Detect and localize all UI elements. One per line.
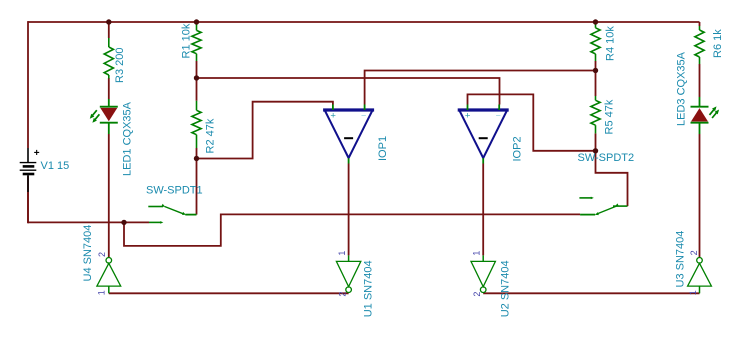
svg-text:SW-SPDT1: SW-SPDT1: [146, 185, 203, 197]
svg-text:U2 SN7404: U2 SN7404: [500, 260, 512, 317]
svg-text:R1 10k: R1 10k: [181, 23, 193, 58]
svg-text:2: 2: [689, 250, 699, 255]
svg-text:SW-SPDT2: SW-SPDT2: [578, 152, 635, 164]
svg-text:U3 SN7404: U3 SN7404: [675, 231, 687, 288]
svg-text:1: 1: [688, 290, 698, 295]
svg-text:R3 200: R3 200: [114, 48, 126, 83]
svg-text:2: 2: [97, 252, 107, 257]
svg-text:U1 SN7404: U1 SN7404: [363, 260, 375, 317]
svg-text:V1 15: V1 15: [41, 160, 70, 172]
svg-text:R2 47k: R2 47k: [205, 118, 217, 153]
svg-text:R4 10k: R4 10k: [605, 26, 617, 61]
svg-text:2: 2: [472, 292, 482, 297]
svg-text:2: 2: [338, 292, 348, 297]
svg-text:IOP2: IOP2: [512, 136, 524, 161]
svg-text:1: 1: [472, 251, 482, 256]
svg-text:IOP1: IOP1: [377, 136, 389, 161]
svg-text:LED1 CQX35A: LED1 CQX35A: [122, 101, 134, 176]
svg-text:1: 1: [97, 290, 107, 295]
svg-text:LED3 CQX35A: LED3 CQX35A: [676, 51, 688, 126]
svg-text:−: −: [496, 110, 501, 120]
svg-text:+: +: [330, 111, 336, 122]
svg-text:+: +: [465, 111, 471, 122]
svg-text:−: −: [361, 110, 366, 120]
svg-text:U4 SN7404: U4 SN7404: [82, 225, 94, 282]
svg-text:R5 47k: R5 47k: [604, 99, 616, 134]
svg-text:R6 1k: R6 1k: [712, 29, 724, 58]
svg-text:+: +: [34, 148, 40, 159]
svg-text:1: 1: [337, 251, 347, 256]
